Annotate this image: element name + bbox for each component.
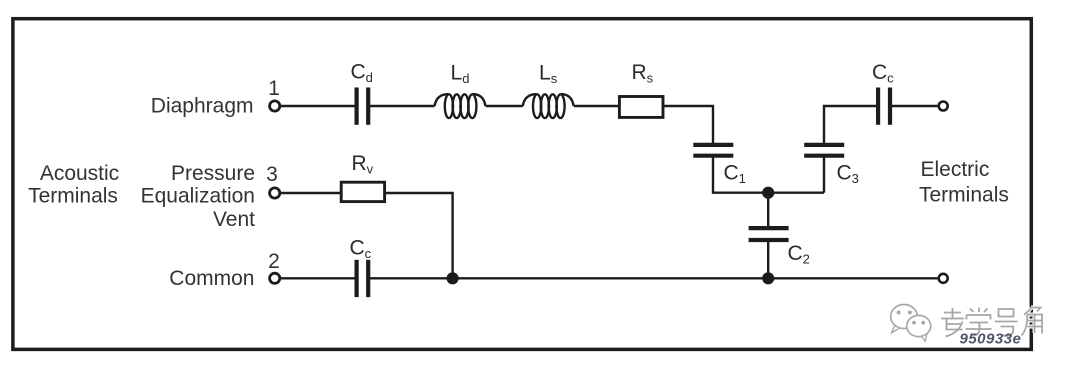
capacitor C2 [767, 193, 769, 227]
svg-text:Common: Common [169, 267, 254, 290]
electric terminal top circle [939, 102, 948, 111]
watermark wechat icon big bubble [891, 305, 918, 333]
inductor Ls [523, 94, 574, 118]
capacitor C3 [804, 145, 844, 156]
resistor Rs [619, 97, 663, 118]
wire C2 to common rail [767, 241, 769, 279]
wire terminal1 to Cd [281, 105, 356, 107]
capacitor Cd [357, 88, 369, 125]
svg-text:3: 3 [266, 163, 278, 186]
capacitor Cc (top right) [878, 88, 890, 125]
wire Rv to common rail [386, 193, 453, 278]
watermark char sheng [941, 308, 964, 337]
svg-text:Terminals: Terminals [919, 184, 1009, 207]
wire Cc to terminal [891, 105, 938, 107]
wire Cd to Ld [369, 105, 435, 107]
wire common rail [369, 277, 938, 279]
svg-text:Diaphragm: Diaphragm [151, 94, 254, 117]
inductor Ld [435, 94, 486, 118]
terminal 1 circle [270, 101, 280, 111]
wire Ls to Rs [574, 105, 619, 107]
watermark char xue [966, 308, 992, 336]
terminal 3 circle [270, 188, 280, 198]
wire C3 bottom to node [823, 156, 825, 193]
svg-text:Pressure: Pressure [171, 162, 255, 185]
capacitor Cc (bottom) [357, 260, 369, 297]
capacitor C1 [693, 145, 733, 156]
svg-text:950933e: 950933e [960, 331, 1022, 348]
resistor Rv [341, 182, 384, 201]
svg-text:2: 2 [268, 250, 280, 273]
wire C3 top to Cc [824, 106, 876, 145]
junction dot Rv/common [447, 272, 459, 284]
wire C1 bottom to node [713, 156, 824, 193]
svg-text:Vent: Vent [213, 208, 255, 231]
svg-text:1: 1 [268, 77, 280, 100]
wire terminal2 to Cc [281, 277, 356, 279]
watermark char hao [995, 309, 1018, 336]
junction dot C2/common [762, 272, 774, 284]
watermark char jiao [1022, 308, 1043, 336]
electric terminal bottom circle [939, 274, 948, 283]
watermark wechat icon small bubble [907, 315, 931, 341]
node junction dot (C1/C2/C3) [762, 187, 774, 199]
svg-text:Acoustic: Acoustic [40, 162, 119, 185]
wire Ld to Ls [486, 105, 523, 107]
wire terminal3 to Rv [281, 192, 341, 194]
svg-text:Terminals: Terminals [28, 185, 118, 208]
svg-text:Electric: Electric [921, 158, 990, 181]
terminal 2 circle [270, 273, 280, 283]
svg-text:Equalization: Equalization [141, 185, 255, 208]
watermark wechat icon big bubble eyes [897, 311, 901, 315]
watermark wechat icon small bubble eyes [912, 321, 916, 325]
wire Rs to corner above C1 [664, 106, 713, 145]
